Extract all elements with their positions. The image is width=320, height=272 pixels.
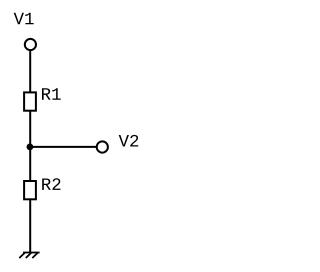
- wire node to R2: [29, 147, 31, 181]
- label R1: [42, 88, 61, 99]
- node V1 label: [14, 13, 34, 24]
- wire V1 to R1: [29, 51, 31, 92]
- node junction dot: [27, 144, 34, 151]
- label R2: [42, 178, 60, 190]
- ground: [19, 253, 39, 259]
- wire node to V2: [30, 146, 97, 148]
- wire R1 to node: [29, 111, 31, 147]
- wire R2 to ground: [29, 199, 31, 252]
- resistor R1: [24, 92, 36, 110]
- terminal V1: [25, 39, 36, 50]
- terminal V2: [97, 141, 108, 152]
- resistor R2: [24, 181, 36, 199]
- node V2 label: [119, 135, 139, 147]
